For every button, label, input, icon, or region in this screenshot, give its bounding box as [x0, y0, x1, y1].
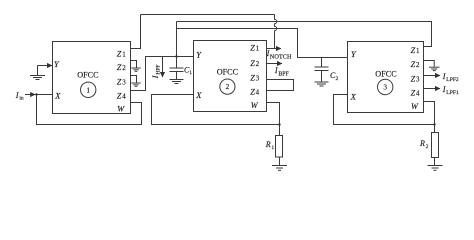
ground under R2	[428, 165, 443, 167]
svg-text:4: 4	[256, 88, 260, 96]
svg-text:LPF2: LPF2	[446, 77, 459, 83]
wire: Z4 of U1 over to Y of U2 (node A)	[131, 57, 194, 91]
capacitor C2	[321, 58, 323, 68]
svg-text:W: W	[411, 102, 419, 111]
svg-text:3: 3	[122, 78, 126, 86]
ground at Z3 of U1	[131, 76, 137, 83]
ground at Z2 of U3	[424, 61, 435, 67]
node dot at R1 junction	[278, 123, 280, 125]
arrow ILPF2 at Z3 of U3	[424, 75, 441, 77]
svg-text:1: 1	[122, 50, 126, 58]
wire: X3 return loop	[334, 95, 435, 125]
svg-text:LPF1: LPF1	[446, 90, 459, 96]
svg-text:3: 3	[383, 84, 387, 92]
wire: bracket joining Z3 and Z4 of U2	[267, 80, 294, 91]
svg-text:BPF: BPF	[278, 72, 289, 78]
wire: W1 feedback loop to X1 node	[37, 95, 142, 125]
svg-text:W: W	[117, 105, 125, 114]
arrow ILPF1 at Z4 of U3	[424, 88, 441, 90]
circle of designator 2	[220, 79, 235, 94]
node dot at R2 junction	[433, 123, 435, 125]
circle of designator 3	[378, 79, 393, 94]
wire: Z1 stub of U2 with INOTCH arrow	[267, 48, 282, 50]
svg-text:Z: Z	[411, 60, 416, 69]
svg-text:Z: Z	[117, 91, 122, 100]
resistor R2	[432, 133, 439, 158]
circle of designator 1	[81, 82, 96, 97]
capacitor C1	[170, 67, 184, 69]
wire: branch from node A to Z1 of U3	[177, 22, 432, 47]
svg-text:2: 2	[416, 61, 420, 69]
svg-text:3: 3	[256, 74, 260, 82]
wire: Iin input to X1	[25, 94, 53, 96]
svg-text:R: R	[419, 139, 425, 148]
wire: W3 down to R2	[424, 102, 435, 133]
node dot at Iin/X1/W1 junction	[35, 93, 37, 95]
svg-text:Z: Z	[250, 73, 255, 82]
svg-text:W: W	[251, 101, 259, 110]
wire: node A riser up to top branch	[176, 22, 178, 69]
svg-text:Y: Y	[54, 60, 60, 69]
svg-text:HPF: HPF	[156, 65, 162, 75]
svg-text:Z: Z	[250, 87, 255, 96]
label IHPF rotated	[151, 65, 162, 80]
svg-text:X: X	[195, 91, 202, 100]
svg-text:1: 1	[271, 145, 274, 151]
svg-text:4: 4	[122, 92, 126, 100]
svg-text:Z: Z	[117, 63, 122, 72]
wire: branch 2 from node A riser to node B	[177, 29, 348, 58]
svg-text:NOTCH: NOTCH	[270, 53, 292, 60]
resistor R1	[276, 136, 283, 158]
ground under C1	[170, 79, 184, 81]
arrow IHPF down from node A	[162, 57, 164, 78]
svg-text:2: 2	[336, 76, 339, 82]
svg-text:Z: Z	[411, 88, 416, 97]
svg-text:Z: Z	[250, 44, 255, 53]
svg-text:1: 1	[256, 45, 260, 53]
svg-text:1: 1	[86, 86, 90, 94]
wire: W2 down to R1	[267, 103, 280, 136]
OFCC block U1 box	[53, 42, 131, 114]
ground at Y1 input	[37, 66, 39, 76]
svg-text:I: I	[274, 66, 278, 75]
ground at Z2 of U1	[131, 61, 137, 68]
node dot where node A riser crosses Y2 wire	[175, 55, 177, 57]
svg-text:I: I	[151, 75, 160, 79]
svg-text:Z: Z	[250, 59, 255, 68]
wire: Z1 of U1 up to top rail	[131, 15, 141, 49]
wire: ground to Y1 with arrow	[38, 65, 53, 67]
svg-text:1: 1	[416, 47, 420, 55]
junction dots	[35, 55, 435, 125]
svg-text:Y: Y	[351, 50, 357, 59]
wire: top rail from Z1(1) riser to Z1(2) riser	[141, 14, 275, 16]
svg-text:in: in	[19, 95, 24, 101]
OFCC block U2 box	[194, 41, 267, 112]
svg-text:Z: Z	[411, 75, 416, 84]
svg-text:2: 2	[226, 83, 230, 91]
svg-text:2: 2	[122, 64, 126, 72]
svg-text:Z: Z	[117, 77, 122, 86]
svg-text:OFCC: OFCC	[77, 71, 99, 80]
ground under C2	[315, 81, 329, 83]
svg-text:2: 2	[256, 60, 260, 68]
svg-text:X: X	[54, 92, 61, 101]
svg-text:2: 2	[426, 144, 429, 150]
svg-text:Z: Z	[411, 46, 416, 55]
svg-text:R: R	[265, 140, 271, 149]
wire: X2 return loop	[152, 95, 280, 125]
svg-text:OFCC: OFCC	[375, 69, 397, 78]
svg-text:Y: Y	[196, 51, 202, 60]
ground under R1	[272, 165, 287, 167]
svg-text:Z: Z	[117, 49, 122, 58]
svg-text:1: 1	[189, 70, 192, 76]
svg-text:X: X	[350, 92, 357, 101]
svg-text:I: I	[442, 72, 446, 81]
svg-text:OFCC: OFCC	[217, 68, 239, 77]
svg-text:4: 4	[416, 89, 420, 97]
svg-text:I: I	[442, 85, 446, 94]
svg-text:3: 3	[416, 76, 420, 84]
OFCC block U3 box	[348, 42, 424, 113]
wire: riser down to Z1 of U2 with two crossover hops	[275, 15, 277, 49]
arrow IBPF at Z2 of U2	[267, 63, 283, 65]
